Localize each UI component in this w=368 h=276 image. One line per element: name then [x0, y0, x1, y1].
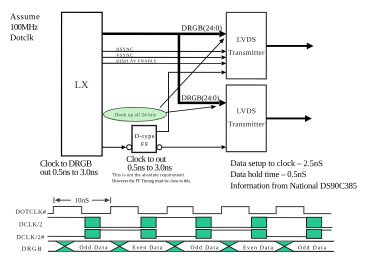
svg-text:Information from National DS90: Information from National DS90C385: [230, 180, 357, 190]
wire FF output to U3 input: [162, 146, 221, 148]
svg-text:Transmitter: Transmitter: [228, 119, 265, 128]
svg-text:DRGB(24:0): DRGB(24:0): [182, 23, 223, 32]
pin output bubble of U4: [157, 145, 162, 150]
dimension arrow 10nS: [54, 197, 111, 203]
svg-text:Even Data: Even Data: [243, 245, 274, 251]
wire DRGB bus branch to U3: [178, 34, 219, 103]
transition windows DCLK/2 (green): [85, 217, 100, 227]
svg-text:HSYNC: HSYNC: [116, 46, 133, 51]
wire LVDS output arrow from U2: [266, 45, 307, 47]
svg-text:Transmitter: Transmitter: [228, 48, 265, 57]
wire DISPLAY ENABLE: [102, 62, 221, 64]
svg-text:FF: FF: [141, 142, 149, 148]
svg-text:Data setup to clock – 2.5nS: Data setup to clock – 2.5nS: [230, 158, 323, 168]
svg-text:However the FF Timing must be: However the FF Timing must be close to t…: [112, 178, 191, 183]
wire FF output to U2 clock input: [156, 72, 221, 131]
callout arrow to lower DRGB bus: [166, 107, 212, 113]
wire LVDS output arrow from U3: [266, 117, 306, 119]
svg-text:10nS: 10nS: [75, 197, 90, 204]
waveform DCLK/2 rails: [47, 217, 332, 227]
svg-text:Assume: Assume: [10, 11, 40, 21]
svg-text:Dotclk: Dotclk: [10, 32, 34, 42]
svg-text:DRGB: DRGB: [22, 246, 42, 253]
callout ellipse: Hook up all 24 bits: [104, 107, 167, 121]
svg-text:0.5ns to 3.0ns: 0.5ns to 3.0ns: [127, 162, 172, 172]
waveform DCLK/2# rails: [47, 230, 331, 237]
svg-text:Odd Data: Odd Data: [190, 245, 219, 251]
svg-text:DRGB(24:0): DRGB(24:0): [182, 93, 220, 102]
callout arrow to top DRGB bus: [160, 41, 222, 108]
svg-text:LX: LX: [75, 80, 89, 91]
wire VSYNC: [102, 56, 221, 58]
svg-text:This is not the absolute requi: This is not the absolute requirement.: [112, 172, 185, 177]
svg-text:Even Data: Even Data: [132, 245, 163, 251]
svg-text:Odd Data: Odd Data: [79, 245, 108, 251]
svg-text:Hook up all 24 bits: Hook up all 24 bits: [115, 112, 156, 118]
svg-text:LVDS: LVDS: [237, 106, 256, 115]
LVDS Transmitter block U2 (top): [226, 12, 266, 78]
svg-text:Data hold time – 0.5nS: Data hold time – 0.5nS: [230, 169, 306, 179]
svg-text:D-type: D-type: [135, 134, 155, 140]
svg-text:DOTCLK#: DOTCLK#: [15, 209, 47, 216]
svg-text:DISPLAY ENABLE: DISPLAY ENABLE: [116, 58, 157, 63]
svg-text:out 0.5ns to 3.0ns: out 0.5ns to 3.0ns: [40, 167, 98, 177]
pin input bubble of U4: [127, 145, 132, 150]
transition windows DCLK/2# (green): [85, 229, 100, 238]
bus DRGB crossover bowties: [55, 241, 74, 246]
svg-text:LVDS: LVDS: [237, 35, 256, 44]
svg-text:DCLK/2: DCLK/2: [19, 221, 43, 228]
svg-text:VSYNC: VSYNC: [116, 52, 133, 57]
LX processor block U1: [61, 12, 102, 156]
LVDS Transmitter block U3 (bottom): [226, 85, 266, 152]
svg-text:DCLK/2#: DCLK/2#: [16, 234, 45, 241]
wire DRGB bus from LX to U2: [102, 33, 219, 36]
bus DRGB rails: [48, 241, 334, 251]
D-type flip-flop U4: [132, 126, 156, 153]
wire clock from LX to FF: [102, 146, 122, 148]
wire HSYNC: [102, 50, 221, 52]
svg-text:100MHz: 100MHz: [10, 22, 38, 32]
svg-text:Odd Data: Odd Data: [298, 245, 327, 251]
waveform DOTCLK#: [47, 207, 331, 214]
